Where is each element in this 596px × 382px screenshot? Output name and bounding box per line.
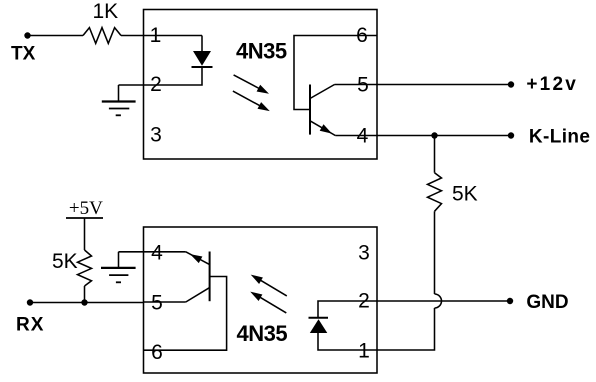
Q2 base diagonal to pin 5 bbox=[186, 288, 210, 302]
Q1 emitter arrow bbox=[320, 124, 332, 133]
wire U2 pin 2 to GND bbox=[377, 300, 510, 302]
node +12v bbox=[508, 81, 514, 87]
svg-text:4: 4 bbox=[151, 241, 163, 264]
phototransistor Q1 base bar bbox=[309, 85, 311, 135]
svg-text:5K: 5K bbox=[52, 250, 78, 273]
wire D1 cathode to pin 2 bbox=[119, 67, 203, 85]
LED D2 cathode wire from pin 2 bbox=[318, 301, 377, 317]
svg-text:5K: 5K bbox=[452, 183, 478, 206]
wire Q1 emitter pin 4 to K-Line bbox=[335, 135, 511, 137]
node K-Line junction bbox=[431, 132, 437, 138]
wire Q1 collector pin 5 to +12v bbox=[335, 84, 512, 86]
resistor R1 1K bbox=[83, 28, 121, 44]
wire junction to R3 bbox=[84, 286, 86, 303]
light arrow A1 bbox=[234, 75, 262, 90]
optocoupler U1 box bbox=[144, 10, 378, 160]
wire TX to R1 bbox=[28, 35, 84, 37]
svg-text:5: 5 bbox=[151, 291, 163, 314]
svg-text:+5V: +5V bbox=[69, 198, 103, 219]
Q1 emitter bbox=[310, 121, 335, 136]
svg-text:1: 1 bbox=[358, 339, 370, 362]
svg-text:1K: 1K bbox=[93, 0, 119, 23]
node RX junction bbox=[81, 299, 87, 305]
svg-text:1: 1 bbox=[150, 24, 162, 47]
svg-text:TX: TX bbox=[11, 44, 36, 65]
phototransistor Q2 base bar bbox=[209, 252, 211, 302]
wire D2 anode to pin 1 bbox=[318, 333, 377, 350]
svg-text:3: 3 bbox=[358, 241, 370, 264]
svg-text:RX: RX bbox=[16, 315, 44, 336]
wire junction to R2 bbox=[434, 136, 436, 173]
LED D1 bbox=[193, 51, 211, 66]
svg-text:6: 6 bbox=[151, 341, 163, 364]
light arrow A3 bbox=[258, 278, 287, 296]
light arrow A2 bbox=[233, 91, 263, 107]
wire R3 to +5V rail bbox=[84, 218, 86, 250]
ground (RX side) bbox=[101, 267, 136, 269]
svg-text:4N35: 4N35 bbox=[237, 321, 288, 346]
Q1 collector bbox=[310, 85, 335, 99]
svg-text:+12v: +12v bbox=[526, 74, 578, 95]
+5V rail bbox=[66, 217, 103, 219]
Q2 emitter arrow bbox=[190, 254, 202, 263]
wire pin 4 to ground bbox=[118, 252, 120, 268]
wire U2 pin 5 bbox=[144, 301, 186, 303]
LED D1 anode wire bbox=[201, 36, 203, 52]
svg-text:GND: GND bbox=[526, 292, 568, 313]
ground (TX side) bbox=[102, 100, 136, 102]
node TX bbox=[24, 32, 30, 38]
optocoupler U2 box bbox=[144, 227, 378, 373]
node RX bbox=[27, 299, 33, 305]
resistor R2 5K bbox=[428, 173, 442, 212]
resistor R3 5K bbox=[78, 250, 92, 286]
wire R1 to U1 pin 1 bbox=[121, 35, 202, 37]
Q2 collector to pin 6 bbox=[144, 277, 227, 351]
node GND bbox=[507, 298, 513, 304]
svg-text:3: 3 bbox=[150, 123, 162, 146]
wire RX to junction bbox=[30, 302, 144, 304]
wire pin 2 to ground bbox=[118, 85, 120, 101]
light arrow A4 bbox=[257, 295, 286, 313]
wire R2 down to hop bbox=[434, 211, 436, 294]
svg-text:4N35: 4N35 bbox=[236, 39, 287, 64]
Q2 emitter bbox=[186, 252, 210, 265]
wire hop to U2 pin 1 bbox=[377, 308, 435, 350]
wire hop over GND bbox=[435, 294, 442, 308]
svg-text:K-Line: K-Line bbox=[529, 127, 591, 148]
wire U1 pin 6 to Q1 base bbox=[294, 36, 377, 110]
LED D2 bbox=[310, 319, 328, 333]
wire U2 pin 4 bbox=[119, 251, 186, 253]
node K-Line bbox=[508, 132, 514, 138]
